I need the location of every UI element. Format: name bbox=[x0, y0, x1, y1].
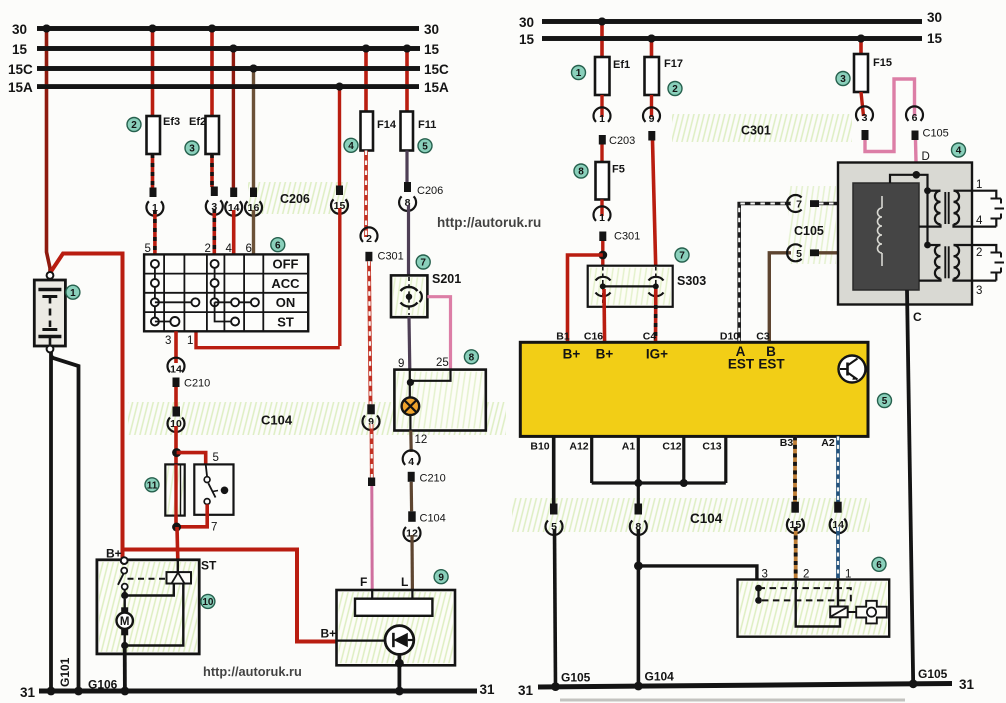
wire ECU B3 (orange/black stripe) bbox=[793, 436, 797, 502]
svg-text:15: 15 bbox=[519, 32, 535, 47]
starter solenoid link bbox=[125, 584, 174, 596]
starter block 10 bbox=[97, 560, 199, 654]
svg-text:25: 25 bbox=[436, 357, 449, 369]
interlock switch block bbox=[194, 464, 233, 514]
svg-text:31: 31 bbox=[959, 677, 975, 692]
svg-text:C104: C104 bbox=[420, 513, 446, 525]
switch ON row link right bbox=[215, 301, 255, 303]
transformer T2 bbox=[928, 244, 941, 246]
svg-text:15A: 15A bbox=[8, 80, 33, 95]
wire lamp to block bottom bbox=[409, 415, 411, 431]
svg-text:ST: ST bbox=[201, 559, 217, 573]
wire F15 to pin 3 bbox=[861, 92, 864, 116]
svg-text:C3: C3 bbox=[756, 331, 770, 343]
svg-text:3: 3 bbox=[840, 74, 846, 85]
wire ST feed horizontal y346 to switch pin1 bbox=[196, 331, 340, 347]
splice square on F wire bbox=[368, 478, 375, 487]
wire switch pin3 output down (red) bbox=[174, 331, 178, 363]
wire C301 to junction bbox=[601, 241, 604, 266]
EST module / sensor block 6 bbox=[738, 580, 890, 637]
connector C301 pin 2 bbox=[360, 227, 377, 242]
svg-text:8: 8 bbox=[578, 167, 584, 178]
connector C104 pin 5 bbox=[550, 504, 558, 515]
S303 contact link bbox=[603, 285, 656, 287]
ground bus 31 left bbox=[39, 689, 477, 694]
wire ST down to starter solenoid (red) bbox=[175, 527, 179, 560]
wire pin8 down to G104 bbox=[637, 529, 641, 688]
wire battery feed from bus 30 bbox=[47, 29, 51, 273]
svg-text:2: 2 bbox=[976, 247, 982, 259]
wire F17 drop from bus 15 bbox=[650, 39, 654, 58]
svg-text:7: 7 bbox=[420, 258, 426, 269]
wire S303 left to ECU C16 (red) bbox=[602, 289, 606, 342]
svg-text:6: 6 bbox=[275, 240, 281, 251]
svg-text:B1: B1 bbox=[556, 331, 570, 343]
switch S201 bbox=[391, 275, 427, 317]
svg-text:M: M bbox=[120, 616, 130, 628]
svg-text:31: 31 bbox=[518, 683, 534, 698]
wire C206 pin15 down to y346 (red) bbox=[338, 208, 341, 346]
connector C104 pin 14 bbox=[834, 502, 842, 513]
wire F5 to C301 pin1 bbox=[600, 200, 603, 217]
callout 5 bbox=[418, 139, 432, 153]
wire pin8 to S201 (dark violet) bbox=[407, 205, 410, 275]
sensor rotor symbol bbox=[848, 611, 857, 613]
watermark hatch band C104 left bbox=[128, 402, 506, 435]
svg-text:A2: A2 bbox=[821, 437, 835, 449]
node block11 top bbox=[172, 448, 181, 457]
svg-text:EST: EST bbox=[758, 357, 785, 372]
wire pin2 to C104 pin9 (red/white stripe) bbox=[369, 261, 371, 404]
coil primary winding symbol bbox=[881, 196, 883, 208]
svg-text:2: 2 bbox=[131, 120, 137, 131]
svg-text:12: 12 bbox=[415, 434, 428, 446]
connector C301 pin 1 bbox=[594, 206, 611, 221]
wire ECU C3 to C105 pin5 (brown) bbox=[769, 253, 791, 342]
svg-text:G101: G101 bbox=[58, 657, 72, 687]
svg-text:7: 7 bbox=[796, 199, 802, 211]
starter solenoid bbox=[167, 572, 192, 583]
callout 5 right bbox=[878, 394, 892, 408]
connector C206 pin 8 bbox=[404, 182, 411, 192]
wire ECU A2 (blue/white stripe) bbox=[836, 436, 840, 502]
svg-text:A12: A12 bbox=[569, 441, 588, 453]
svg-text:C105: C105 bbox=[923, 128, 949, 140]
svg-text:http://autoruk.ru: http://autoruk.ru bbox=[437, 215, 541, 230]
svg-text:14: 14 bbox=[170, 364, 182, 376]
connector C104 pin 8 bbox=[635, 504, 643, 515]
fuse Ef3 bbox=[147, 116, 161, 154]
svg-text:G104: G104 bbox=[645, 670, 675, 684]
node junction pin7 bbox=[172, 523, 181, 532]
wire C13 bbox=[724, 436, 727, 483]
svg-text:B+: B+ bbox=[596, 347, 614, 362]
callout 7 right bbox=[675, 248, 689, 262]
fuse F15 bbox=[854, 54, 868, 92]
svg-text:3: 3 bbox=[862, 112, 868, 124]
node on bus 30 battery bbox=[43, 25, 51, 33]
svg-text:C203: C203 bbox=[609, 135, 635, 147]
svg-text:30: 30 bbox=[12, 22, 27, 37]
wire C206 pin14 to switch col4 (red) bbox=[232, 210, 236, 254]
switch contacts column 5 bbox=[154, 264, 156, 322]
fuse F5 bbox=[596, 162, 610, 200]
svg-text:31: 31 bbox=[20, 685, 36, 700]
connector C105 pin 7 bbox=[787, 195, 802, 212]
fuse Ef2 bbox=[206, 116, 220, 154]
svg-text:ON: ON bbox=[276, 295, 296, 310]
ECU block 5 bbox=[520, 342, 868, 436]
watermark hatch band C105 bbox=[788, 186, 836, 264]
svg-text:IG+: IG+ bbox=[646, 347, 668, 362]
connector C203 pin 1 bbox=[594, 107, 611, 122]
svg-text:B+: B+ bbox=[106, 547, 122, 561]
sensor coil bbox=[830, 607, 848, 618]
wire A1 bbox=[637, 436, 640, 504]
connector C210 pin 14 bbox=[168, 358, 185, 373]
wire block11 to junction7 (red) bbox=[174, 516, 178, 527]
svg-text:6: 6 bbox=[246, 243, 252, 255]
callout 11 bbox=[145, 478, 159, 492]
watermark hatch band C301 right bbox=[672, 114, 852, 142]
wire C206 pin3 to switch col2 (red/black stripe) bbox=[213, 209, 217, 254]
svg-text:C13: C13 bbox=[702, 441, 721, 453]
starter contacts bbox=[121, 568, 127, 574]
generator ground wire bbox=[397, 654, 401, 691]
svg-text:F15: F15 bbox=[873, 57, 892, 69]
DIS ignition coil module 4 bbox=[838, 163, 972, 305]
starter B+ terminal bbox=[121, 557, 128, 564]
svg-text:C301: C301 bbox=[614, 231, 640, 243]
wire pin14 drop from bus 15 bbox=[232, 49, 235, 189]
switch S303 bbox=[588, 266, 673, 307]
block8 internal wiring bbox=[410, 370, 450, 381]
svg-text:Ef3: Ef3 bbox=[163, 116, 180, 128]
svg-text:5: 5 bbox=[422, 142, 428, 153]
wire S201 bottom to block8 pin9 (dark violet) bbox=[407, 317, 411, 369]
svg-text:4: 4 bbox=[226, 243, 233, 255]
S303 right contact bbox=[655, 267, 657, 306]
bus rails repaint (over wires) bbox=[37, 26, 419, 31]
warning lamp bbox=[402, 397, 420, 415]
svg-text:G105: G105 bbox=[918, 667, 948, 681]
connector C206 pin 3 bbox=[211, 187, 218, 197]
callout 10 bbox=[201, 594, 215, 608]
svg-text:9: 9 bbox=[438, 572, 444, 583]
wire pin14 to sensor (blue/white stripe) bbox=[836, 527, 840, 580]
watermark hatch band C206 area bbox=[248, 182, 348, 214]
svg-text:7: 7 bbox=[211, 522, 217, 534]
svg-text:C206: C206 bbox=[417, 185, 443, 197]
callout 2 right bbox=[668, 82, 682, 96]
wire pin7 to coil module (black/white dash) bbox=[819, 202, 853, 206]
svg-text:4: 4 bbox=[408, 456, 414, 468]
svg-text:D10: D10 bbox=[720, 331, 739, 343]
ECU transistor symbol bbox=[839, 356, 866, 383]
wire pin10 to junction (red) bbox=[174, 426, 178, 464]
watermark hatch band C104 right bbox=[512, 498, 870, 532]
bus 15 (left) bbox=[37, 46, 420, 51]
svg-text:B3: B3 bbox=[780, 437, 794, 449]
svg-text:1: 1 bbox=[599, 212, 605, 224]
svg-text:5: 5 bbox=[796, 248, 802, 260]
svg-text:9: 9 bbox=[649, 113, 655, 125]
svg-text:15: 15 bbox=[927, 31, 943, 46]
callout 6 bbox=[271, 238, 285, 252]
battery ground wire G101 bbox=[49, 352, 53, 691]
svg-text:OFF: OFF bbox=[273, 257, 299, 272]
svg-text:B10: B10 bbox=[530, 441, 549, 453]
connector C105 pin 6 bbox=[906, 106, 923, 121]
callout 1 bbox=[66, 285, 80, 299]
wire Ef2 drop from bus 30 bbox=[210, 29, 214, 117]
wire Ef3 drop from bus 30 bbox=[151, 29, 155, 117]
svg-text:7: 7 bbox=[679, 251, 685, 262]
svg-text:C16: C16 bbox=[584, 331, 603, 343]
callout 1 right bbox=[572, 66, 586, 80]
svg-text:D: D bbox=[922, 151, 930, 163]
generator block 9 bbox=[337, 590, 456, 665]
connector C105 pin 3 bbox=[856, 106, 873, 121]
fuse F11 bbox=[401, 112, 414, 151]
switch ON row link left bbox=[155, 301, 196, 303]
callout 4 right bbox=[952, 143, 966, 157]
svg-text:EST: EST bbox=[728, 357, 755, 372]
bus 15 (right) bbox=[542, 36, 922, 41]
svg-text:4: 4 bbox=[348, 141, 354, 152]
svg-text:4: 4 bbox=[976, 215, 983, 227]
svg-text:C104: C104 bbox=[690, 511, 723, 526]
sensor inner wiring bbox=[796, 580, 840, 627]
svg-text:ACC: ACC bbox=[271, 276, 300, 291]
fuse Ef1 bbox=[595, 57, 610, 95]
svg-text:30: 30 bbox=[927, 10, 942, 25]
wire pin15 to sensor (orange/black stripe) bbox=[794, 527, 798, 580]
connector C206 pin 14 bbox=[230, 188, 237, 198]
spark plug cyl 1-4 bbox=[991, 198, 1002, 200]
svg-text:2: 2 bbox=[205, 243, 211, 255]
svg-text:5: 5 bbox=[145, 243, 151, 255]
connector C206 pin 15 bbox=[336, 186, 343, 196]
svg-text:31: 31 bbox=[480, 682, 496, 697]
svg-text:8: 8 bbox=[469, 353, 475, 364]
spark plug cyl 2-3 bbox=[991, 252, 1002, 254]
generator diode bbox=[385, 626, 414, 655]
svg-text:F14: F14 bbox=[377, 119, 397, 131]
wire ECU D10 to C105 pin7 (black/white dash) bbox=[739, 204, 791, 343]
callout 7 bbox=[416, 255, 430, 269]
svg-text:F11: F11 bbox=[418, 119, 436, 131]
instrument cluster block 8 bbox=[394, 370, 485, 431]
ground bus 31 right bbox=[538, 684, 952, 688]
fuse F17 bbox=[645, 57, 660, 95]
wire Ef1 to C203 bbox=[600, 95, 603, 117]
starter motor bbox=[121, 607, 128, 614]
wire pin9 to splice (red/white stripe) bbox=[370, 424, 374, 478]
wire Ef3 to C206 pin1 (red/black stripe) bbox=[151, 154, 155, 188]
wire A12 bbox=[590, 436, 593, 483]
wire splice to generator F (pink) bbox=[370, 486, 373, 590]
callout 6 right bbox=[872, 557, 886, 571]
connector C301 pin 9 bbox=[643, 107, 660, 122]
svg-text:G105: G105 bbox=[561, 671, 591, 685]
battery ground wire G106 branch bbox=[51, 356, 79, 691]
wire lamp out (brown) bbox=[409, 431, 413, 453]
wire F14 drop from bus 15 bbox=[364, 49, 368, 112]
wire pin3 to pin6 (pink) bbox=[865, 79, 915, 152]
svg-text:F17: F17 bbox=[664, 58, 683, 70]
callout 4 bbox=[344, 138, 358, 152]
svg-text:2: 2 bbox=[672, 84, 678, 95]
wire S201 drop: F11 to C206 pin8 (dark violet) bbox=[405, 151, 408, 184]
svg-text:C210: C210 bbox=[420, 473, 446, 485]
callout 2 bbox=[127, 118, 141, 132]
wire C206 pin16 to switch col6 (brown) bbox=[252, 210, 255, 254]
wire S303 right to ECU C4 (red/black stripe) bbox=[654, 289, 658, 342]
wire pin9 to S303 right contact bbox=[653, 141, 656, 271]
node S303 feed bbox=[598, 251, 607, 260]
svg-text:G106: G106 bbox=[88, 678, 118, 692]
wire pin5 to ground bus bbox=[555, 529, 556, 687]
svg-text:15C: 15C bbox=[8, 62, 33, 77]
callout 8 right bbox=[574, 164, 588, 178]
svg-text:3: 3 bbox=[189, 144, 195, 155]
svg-text:S201: S201 bbox=[432, 272, 461, 286]
svg-text:4: 4 bbox=[956, 146, 962, 157]
wire pin15 drop from bus 15A bbox=[338, 87, 341, 186]
switch grid columns bbox=[163, 254, 165, 331]
svg-text:B+: B+ bbox=[563, 347, 581, 362]
wire Ef2 to C206 pin3 (red/black stripe) bbox=[210, 154, 214, 187]
svg-text:F: F bbox=[360, 575, 367, 589]
fuse F14 bbox=[361, 112, 374, 151]
svg-text:http://autoruk.ru: http://autoruk.ru bbox=[203, 664, 302, 679]
bus junction dots repaint bbox=[43, 25, 51, 33]
svg-text:3: 3 bbox=[165, 335, 171, 347]
svg-text:B+: B+ bbox=[321, 627, 337, 641]
svg-text:15: 15 bbox=[424, 42, 440, 57]
callout 8 bbox=[464, 350, 478, 364]
D node bbox=[913, 171, 921, 179]
resistor block 11 bbox=[165, 464, 184, 515]
svg-text:15: 15 bbox=[12, 42, 28, 57]
svg-text:30: 30 bbox=[519, 15, 534, 30]
svg-text:C12: C12 bbox=[662, 441, 681, 453]
wire junction to ECU B1 bbox=[568, 255, 603, 342]
connector C206 pin 1 bbox=[150, 188, 157, 198]
wire branch to interlock switch 5 bbox=[177, 453, 206, 465]
wire B10 ground bbox=[552, 436, 556, 504]
svg-text:C301: C301 bbox=[378, 251, 404, 263]
svg-text:C: C bbox=[913, 310, 922, 324]
S303 left contact bbox=[602, 267, 604, 306]
scan edge artifact bbox=[560, 699, 905, 702]
battery B001 bbox=[34, 280, 65, 346]
switch grid rows bbox=[144, 273, 308, 275]
svg-text:1: 1 bbox=[976, 179, 982, 191]
svg-text:1: 1 bbox=[599, 113, 605, 125]
bus 15C (left) bbox=[37, 66, 420, 71]
starter solenoid return bbox=[128, 584, 183, 646]
svg-text:6: 6 bbox=[876, 560, 882, 571]
svg-text:A1: A1 bbox=[622, 441, 636, 453]
signal ground link bbox=[592, 481, 726, 484]
wire F11 drop from bus 15 bbox=[405, 49, 409, 112]
switch contacts column 2 bbox=[214, 264, 216, 302]
wire pin6 to D node (pink) bbox=[914, 140, 918, 175]
wire C210 to C104 (red) bbox=[174, 387, 178, 407]
wire F15 drop from bus 15 bbox=[859, 39, 863, 55]
svg-text:C301: C301 bbox=[741, 124, 771, 138]
bus 30 (left) bbox=[37, 26, 419, 31]
connector C104 pin 9 bbox=[367, 404, 375, 414]
transformer T1 bbox=[928, 190, 941, 192]
wire C12 bbox=[682, 436, 685, 483]
svg-text:Ef2: Ef2 bbox=[189, 116, 206, 128]
svg-text:C206: C206 bbox=[280, 192, 310, 206]
svg-text:3: 3 bbox=[976, 285, 982, 297]
svg-text:C104: C104 bbox=[261, 413, 293, 428]
svg-text:Ef1: Ef1 bbox=[613, 59, 630, 71]
ground nodes left bbox=[47, 687, 56, 696]
generator regulator bbox=[371, 590, 373, 599]
connector C210 pin 4 bbox=[403, 450, 420, 465]
coil module electronic block bbox=[853, 183, 919, 290]
connector C206 pin 16 bbox=[250, 188, 257, 198]
switch col2 to ST row jog bbox=[215, 302, 231, 321]
svg-text:F5: F5 bbox=[612, 164, 625, 176]
svg-text:1: 1 bbox=[187, 335, 193, 347]
callout 3 bbox=[185, 141, 199, 155]
callout 9 bbox=[434, 570, 448, 584]
bus 15A (left) bbox=[37, 84, 419, 89]
svg-text:10: 10 bbox=[202, 597, 214, 608]
wire S201 to lamp feed (pink) bbox=[427, 297, 450, 370]
wire C203 to F5 bbox=[600, 145, 603, 163]
bus 30 (right) bbox=[542, 19, 922, 24]
wire pin12 to generator L (brown) bbox=[410, 535, 414, 590]
svg-text:15C: 15C bbox=[424, 62, 449, 77]
svg-text:S303: S303 bbox=[677, 274, 706, 288]
svg-text:ST: ST bbox=[277, 314, 294, 329]
wire Ef1 drop from bus 30 bbox=[600, 22, 604, 58]
wire C206 pin1 to switch col5 (red/black stripe) bbox=[153, 210, 157, 254]
svg-text:C210: C210 bbox=[184, 378, 210, 390]
svg-text:5: 5 bbox=[213, 452, 219, 464]
battery positive cable to starter and generator bbox=[50, 254, 123, 559]
svg-text:30: 30 bbox=[424, 22, 439, 37]
wire pin16 drop from bus 15C bbox=[252, 69, 255, 189]
wire F17 to pin 9 bbox=[650, 95, 653, 117]
svg-text:C105: C105 bbox=[794, 224, 824, 238]
sensor shield bbox=[755, 585, 762, 592]
ground nodes right bbox=[551, 682, 560, 691]
svg-text:15A: 15A bbox=[424, 80, 449, 95]
wire F14 to C301 pin2 (red/white stripe) bbox=[364, 151, 368, 238]
wire pin5 to coil module (brown) bbox=[819, 251, 853, 254]
wire junction to sensor pin3 bbox=[638, 566, 757, 580]
svg-text:L: L bbox=[401, 575, 408, 589]
svg-text:1: 1 bbox=[70, 288, 76, 299]
svg-text:5: 5 bbox=[882, 396, 888, 407]
svg-text:11: 11 bbox=[147, 481, 158, 492]
svg-text:2: 2 bbox=[366, 233, 372, 245]
wire pin4 to C104 pin12 (brown) bbox=[410, 482, 414, 512]
svg-text:1: 1 bbox=[576, 68, 582, 79]
svg-text:C4: C4 bbox=[643, 331, 657, 343]
svg-text:9: 9 bbox=[398, 358, 404, 370]
callout 3 right bbox=[836, 72, 850, 86]
